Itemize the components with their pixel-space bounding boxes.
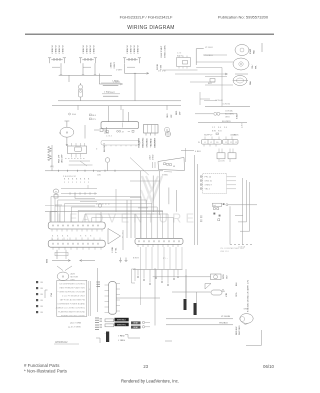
- svg-text:PNK 1FF: PNK 1FF: [59, 154, 61, 163]
- svg-text:1 BLK 2 WHT: 1 BLK 2 WHT: [161, 45, 163, 58]
- svg-text:C/N: C/N: [97, 175, 101, 177]
- svg-text:R G: R G: [218, 131, 222, 133]
- svg-text:Rendered by LeadVenture, Inc.: Rendered by LeadVenture, Inc.: [121, 378, 179, 383]
- svg-text:DOOR: DOOR: [157, 63, 159, 70]
- svg-text:B W: B W: [212, 131, 216, 133]
- svg-text:YEL 2: YEL 2: [205, 189, 211, 191]
- svg-text:L2: L2: [210, 142, 212, 144]
- svg-text:M: M: [66, 131, 68, 135]
- svg-text:EVAP: EVAP: [249, 48, 252, 54]
- svg-text:BLK/WHT: BLK/WHT: [104, 142, 106, 152]
- svg-text:4 RED: 4 RED: [162, 175, 168, 177]
- svg-text:FAN: FAN: [249, 81, 252, 85]
- svg-text:BRN/WHT: BRN/WHT: [155, 137, 157, 147]
- svg-text:BLK/WHT: BLK/WHT: [139, 138, 141, 148]
- svg-text:ORG 10: ORG 10: [205, 181, 213, 183]
- svg-text:47: 47: [122, 131, 124, 133]
- svg-text:2: 2: [64, 182, 65, 184]
- svg-text:2 BRN W: 2 BRN W: [63, 45, 65, 53]
- svg-text:AP6036412: AP6036412: [55, 341, 68, 344]
- svg-text:2 BRN W: 2 BRN W: [90, 45, 92, 53]
- svg-text:2: 2: [72, 182, 73, 184]
- svg-text:1 2 3 4: 1 2 3 4: [106, 136, 112, 138]
- svg-text:B W R: B W R: [133, 258, 139, 260]
- svg-text:pl + -: pl + -: [163, 258, 168, 260]
- svg-text:1 GRN: 1 GRN: [112, 246, 114, 253]
- svg-text:PPL 14: PPL 14: [205, 177, 212, 179]
- svg-text:3 RED 7: 3 RED 7: [205, 185, 213, 187]
- svg-text:(4) LT GRN: (4) LT GRN: [70, 323, 82, 325]
- svg-text:JUMBLE LU. LISTED CONTROL: JUMBLE LU. LISTED CONTROL: [56, 308, 86, 310]
- svg-text:BLK: BLK: [92, 115, 96, 117]
- svg-text:ORG 2FF: ORG 2FF: [62, 154, 64, 163]
- svg-text:WIRING DIAGRAM: WIRING DIAGRAM: [127, 25, 175, 31]
- svg-text:2 WHT: 2 WHT: [114, 62, 116, 69]
- svg-text:# Functional Parts: # Functional Parts: [24, 363, 60, 368]
- svg-text:48: 48: [173, 166, 175, 168]
- svg-text:Publication No: 5995573200: Publication No: 5995573200: [218, 15, 269, 20]
- svg-text:5 SW: 5 SW: [161, 65, 163, 70]
- svg-text:2: 2: [84, 182, 85, 184]
- svg-text:2 BRN W: 2 BRN W: [134, 45, 136, 53]
- svg-text:1 BRN: 1 BRN: [111, 62, 113, 68]
- svg-text:(-) 4 LT GRN: (-) 4 LT GRN: [68, 327, 81, 329]
- svg-text:CON: CON: [220, 161, 225, 163]
- svg-text:R.I.D. A/W. GR.MD.I.CR. 4A PR.: R.I.D. A/W. GR.MD.I.CR. 4A PR. C.PL: [247, 280, 250, 312]
- svg-text:2 BRN W: 2 BRN W: [59, 45, 61, 53]
- svg-text:CON 4A: CON 4A: [225, 110, 233, 113]
- svg-text:2: 2: [80, 182, 81, 184]
- svg-text:BLK: BLK: [208, 83, 212, 85]
- svg-text:LT. BLU: LT. BLU: [205, 47, 213, 49]
- svg-text:(xx): (xx): [213, 205, 216, 207]
- svg-text:2 BRN W: 2 BRN W: [56, 45, 58, 53]
- svg-text:YEL/RED: YEL/RED: [151, 138, 153, 147]
- svg-text:FAN: FAN: [253, 50, 256, 54]
- svg-text:GRAY: GRAY: [133, 322, 139, 325]
- svg-text:BRN: BRN: [47, 258, 49, 263]
- svg-text:2 BRN W: 2 BRN W: [138, 45, 140, 53]
- svg-text:2 BRN W: 2 BRN W: [131, 45, 133, 53]
- svg-text:2 W: 2 W: [162, 71, 166, 73]
- svg-text:2 RED: 2 RED: [153, 154, 155, 160]
- svg-text:ICE DISPENSER CONTROL: ICE DISPENSER CONTROL: [59, 284, 86, 286]
- svg-text:2: 2: [68, 182, 69, 184]
- svg-text:RED/ORG: RED/ORG: [143, 137, 145, 147]
- svg-text:ORG: ORG: [167, 113, 169, 118]
- svg-text:2: 2: [88, 182, 89, 184]
- svg-text:1 2 3: 1 2 3: [177, 53, 181, 55]
- svg-text:LEADVENTURE: LEADVENTURE: [58, 212, 199, 226]
- svg-text:CON 5A: CON 5A: [238, 246, 246, 249]
- svg-text:1 CUPS: 1 CUPS: [230, 135, 237, 137]
- svg-text:C1: C1: [225, 142, 227, 144]
- svg-text:N BLK: N BLK: [237, 113, 239, 119]
- svg-text:AUG: AUG: [71, 273, 76, 276]
- svg-text:06/10: 06/10: [263, 364, 275, 369]
- svg-text:# ORG: # ORG: [118, 340, 125, 342]
- svg-text:C5A: C5A: [50, 292, 53, 297]
- svg-text:FAST FREEZE PLATE TWO: FAST FREEZE PLATE TWO: [60, 287, 86, 290]
- svg-text:ORG/BLK: ORG/BLK: [147, 138, 149, 148]
- svg-text:DISPENSER POWER BOARD: DISPENSER POWER BOARD: [58, 303, 86, 306]
- svg-text:2 BLK: 2 BLK: [104, 91, 110, 93]
- svg-text:GRAY: GRAY: [133, 326, 139, 329]
- svg-text:3 RED 4 GRN: 3 RED 4 GRN: [165, 45, 167, 58]
- svg-text:# RED: # RED: [118, 336, 125, 338]
- svg-text:WHT/BLK: WHT/BLK: [117, 320, 127, 322]
- svg-text:L BLK: L BLK: [150, 154, 152, 160]
- svg-text:23: 23: [143, 364, 148, 369]
- svg-text:FLASHING EARTH GROUND: FLASHING EARTH GROUND: [58, 311, 85, 314]
- svg-text:TAP POST AU BOITIER PIN: TAP POST AU BOITIER PIN: [60, 299, 86, 302]
- svg-text:WHT/YEL: WHT/YEL: [117, 324, 127, 326]
- svg-text:WHT ORG: WHT ORG: [239, 325, 241, 335]
- svg-text:WTR: WTR: [223, 274, 225, 279]
- svg-text:2 BRN W: 2 BRN W: [83, 45, 85, 53]
- svg-text:L WHT: L WHT: [113, 82, 120, 84]
- svg-text:4 CU. FT MODELS ONLY: 4 CU. FT MODELS ONLY: [62, 296, 86, 298]
- svg-text:SUPPLY: SUPPLY: [204, 135, 213, 137]
- svg-text:2 WHT: 2 WHT: [116, 70, 123, 72]
- svg-text:LT. BLUE: LT. BLUE: [221, 316, 231, 318]
- svg-text:L1: L1: [204, 142, 206, 144]
- svg-text:ORG: ORG: [236, 292, 238, 297]
- svg-text:FGHS2332LP / FGHS2342LF: FGHS2332LP / FGHS2342LF: [120, 15, 173, 20]
- svg-text:FRAME GROUND LISTED: FRAME GROUND LISTED: [61, 315, 86, 318]
- svg-text:B W R: B W R: [177, 56, 183, 58]
- svg-text:2 YEL: 2 YEL: [116, 247, 118, 253]
- svg-text:YEL/BLU: YEL/BLU: [204, 55, 213, 57]
- svg-text:CON A1: CON A1: [215, 99, 224, 102]
- svg-text:RED BLK: RED BLK: [236, 326, 238, 335]
- svg-text:2 BRN W: 2 BRN W: [94, 45, 96, 53]
- svg-text:C2: C2: [230, 142, 232, 144]
- svg-text:* Non-Illustrated Parts: * Non-Illustrated Parts: [24, 369, 68, 374]
- svg-text:YEL/: YEL/: [252, 64, 254, 69]
- svg-text:BLK BRN: BLK BRN: [225, 114, 234, 116]
- svg-text:2 BRN W: 2 BRN W: [127, 45, 129, 53]
- svg-text:RED: RED: [176, 110, 178, 115]
- svg-text:HTR: HTR: [226, 292, 228, 297]
- svg-text:BLK/BRN: BLK/BRN: [222, 121, 231, 123]
- svg-text:(4F): (4F): [50, 166, 54, 168]
- svg-text:CON B2: CON B2: [222, 104, 231, 106]
- svg-text:2 4 6 8 10 12: 2 4 6 8 10 12: [63, 176, 77, 178]
- svg-text:** WIRE SUPPLIED ON SOME: ** WIRE SUPPLIED ON SOME: [57, 292, 85, 294]
- svg-text:MOTOR: MOTOR: [71, 277, 79, 279]
- svg-text:ORG: ORG: [225, 117, 230, 119]
- svg-text:M: M: [62, 276, 64, 279]
- svg-text:2 BRN W: 2 BRN W: [52, 45, 54, 53]
- svg-text:2: 2: [76, 182, 77, 184]
- svg-text:2 BRN W: 2 BRN W: [87, 45, 89, 53]
- svg-text:USE 12-3: USE 12-3: [220, 251, 230, 253]
- svg-text:4 BLK: 4 BLK: [195, 151, 201, 153]
- svg-text:C3: C3: [235, 142, 237, 144]
- svg-text:YEL/BLK: YEL/BLK: [219, 323, 228, 325]
